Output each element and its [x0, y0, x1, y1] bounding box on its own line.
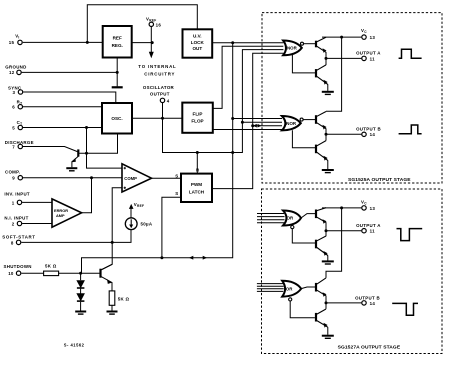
svg-text:R: R	[196, 168, 200, 173]
svg-text:SG1525A OUTPUT STAGE: SG1525A OUTPUT STAGE	[348, 177, 411, 183]
svg-text:DISCHARGE: DISCHARGE	[5, 140, 34, 145]
svg-text:13: 13	[370, 206, 376, 211]
svg-text:REG.: REG.	[112, 43, 123, 48]
svg-text:1: 1	[12, 200, 15, 205]
svg-text:LATCH: LATCH	[189, 190, 205, 195]
svg-text:OSC.: OSC.	[111, 116, 122, 121]
svg-text:NOR: NOR	[287, 46, 298, 51]
svg-text:12: 12	[9, 70, 15, 75]
svg-text:U.V.: U.V.	[193, 34, 202, 39]
svg-text:CIRCUITRY: CIRCUITRY	[144, 71, 175, 76]
svg-text:10: 10	[8, 271, 14, 276]
svg-text:3: 3	[13, 90, 16, 95]
svg-text:4: 4	[167, 98, 170, 103]
svg-text:S- 41562: S- 41562	[64, 342, 85, 347]
svg-text:6: 6	[12, 105, 15, 110]
svg-text:2: 2	[12, 221, 15, 226]
svg-text:7: 7	[12, 144, 15, 149]
svg-text:INV. INPUT: INV. INPUT	[4, 192, 30, 197]
svg-text:SG1527A OUTPUT STAGE: SG1527A OUTPUT STAGE	[338, 344, 401, 350]
svg-text:11: 11	[370, 229, 375, 234]
svg-text:OUTPUT B: OUTPUT B	[356, 127, 381, 132]
svg-text:OUTPUT B: OUTPUT B	[355, 295, 380, 300]
svg-text:15: 15	[9, 40, 15, 45]
svg-text:11: 11	[370, 56, 375, 61]
svg-text:OUTPUT A: OUTPUT A	[356, 223, 381, 228]
svg-text:OUTPUT A: OUTPUT A	[356, 50, 381, 55]
svg-text:SOFT-START: SOFT-START	[2, 234, 35, 239]
svg-text:OUTPUT: OUTPUT	[150, 91, 170, 96]
svg-text:5: 5	[12, 125, 15, 130]
svg-text:OUT: OUT	[192, 46, 202, 51]
svg-text:FLOP: FLOP	[191, 119, 203, 124]
svg-text:8: 8	[11, 240, 14, 245]
svg-text:NOR: NOR	[286, 121, 297, 126]
svg-text:LOCK: LOCK	[191, 40, 205, 45]
svg-text:PWM: PWM	[191, 182, 202, 187]
svg-text:COMP: COMP	[124, 176, 137, 181]
svg-text:OSCILLATOR: OSCILLATOR	[143, 85, 175, 90]
svg-text:5K Ω: 5K Ω	[45, 263, 57, 268]
svg-text:S: S	[175, 173, 178, 178]
svg-text:9: 9	[12, 176, 15, 181]
svg-text:14: 14	[370, 301, 376, 306]
svg-text:N.I. INPUT: N.I. INPUT	[4, 216, 28, 221]
svg-text:TO INTERNAL: TO INTERNAL	[138, 64, 176, 69]
svg-text:GROUND: GROUND	[5, 64, 26, 69]
svg-text:14: 14	[370, 132, 376, 137]
svg-text:S: S	[175, 191, 178, 196]
svg-text:AMP: AMP	[56, 213, 65, 218]
svg-text:REF: REF	[113, 36, 122, 41]
svg-text:13: 13	[370, 35, 376, 40]
svg-text:COMP.: COMP.	[5, 169, 20, 174]
svg-text:5K Ω: 5K Ω	[118, 297, 130, 302]
svg-text:SHUTDOWN: SHUTDOWN	[4, 264, 32, 269]
svg-text:FLIP: FLIP	[193, 111, 203, 116]
svg-text:OR: OR	[286, 286, 293, 291]
svg-text:16: 16	[156, 22, 162, 27]
svg-text:50µA: 50µA	[141, 221, 153, 226]
svg-text:OR: OR	[287, 216, 294, 221]
